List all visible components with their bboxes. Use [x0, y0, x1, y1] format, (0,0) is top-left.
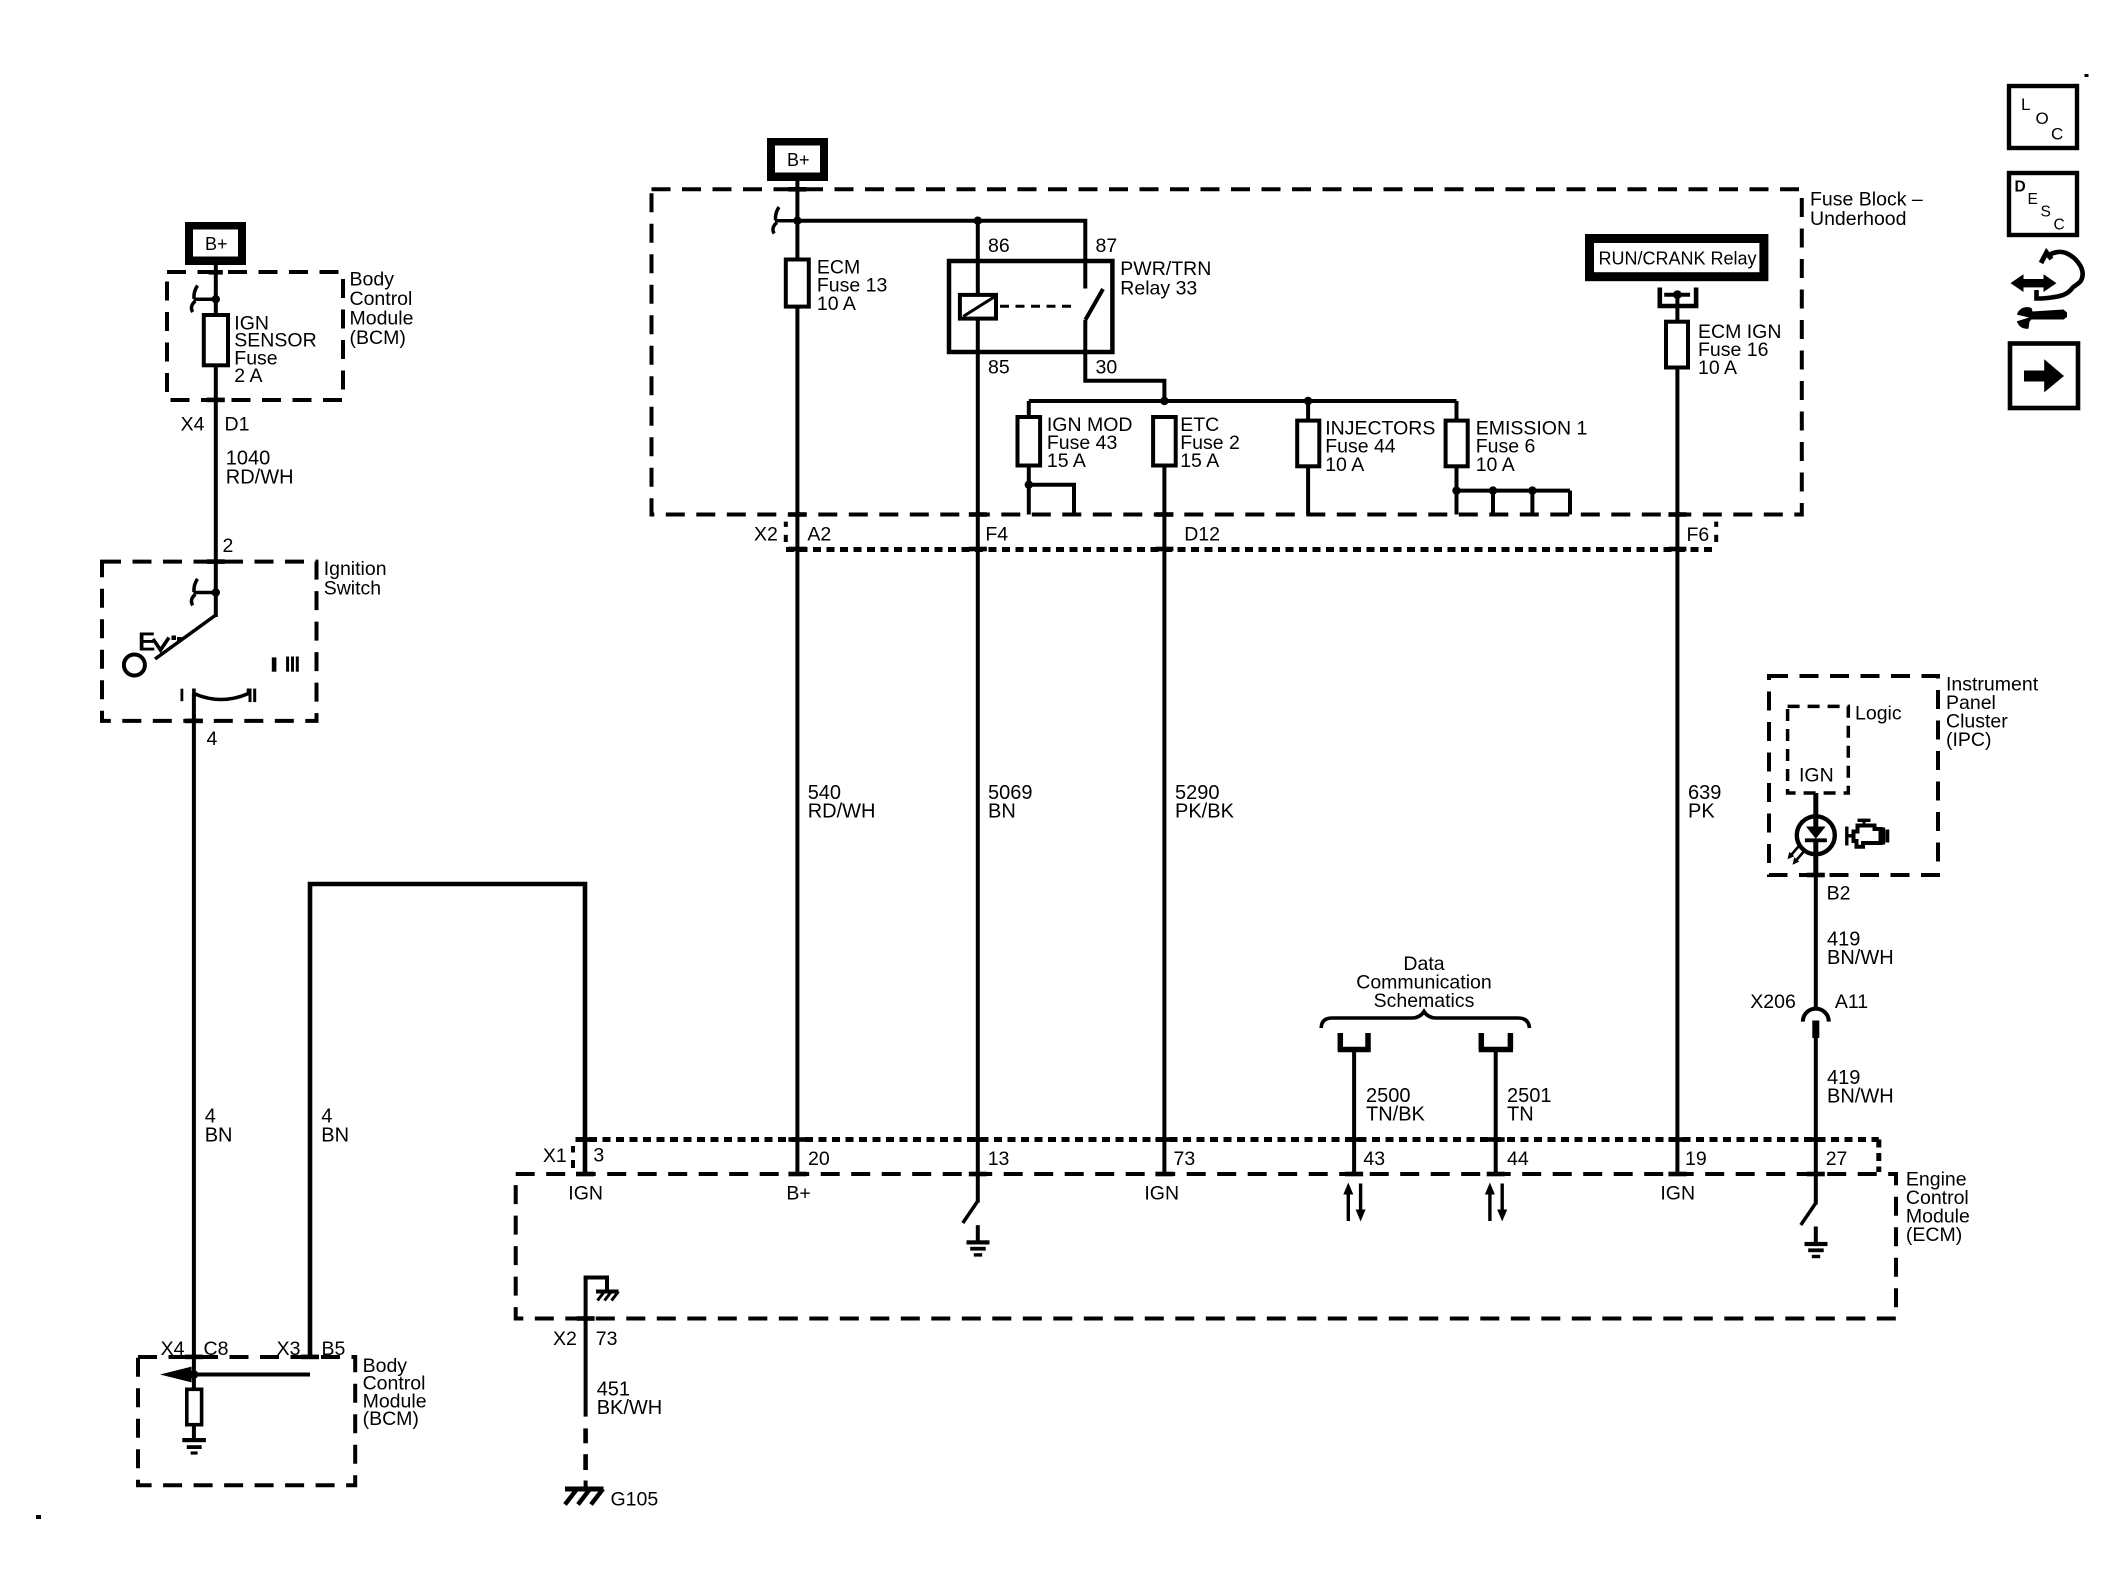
- svg-text:RUN/CRANK Relay: RUN/CRANK Relay: [1599, 249, 1757, 269]
- svg-text:10 A: 10 A: [1476, 454, 1515, 476]
- svg-text:IGN: IGN: [1660, 1183, 1695, 1205]
- relay pin labels 85 30: [988, 357, 1117, 379]
- svg-text:D12: D12: [1184, 524, 1220, 546]
- wire label 4 BN (right): [321, 1106, 349, 1147]
- wire label 540 RD/WH: [808, 782, 876, 823]
- junction node inside BCM: [190, 1370, 311, 1379]
- connector X2 labels at ECM: [553, 1316, 617, 1350]
- svg-text:IGN: IGN: [1799, 765, 1834, 787]
- wire label 5069 BN: [988, 782, 1033, 823]
- svg-text:86: 86: [988, 235, 1010, 257]
- Body Control Module (BCM) box, top: [167, 272, 343, 400]
- pin 4 label: [207, 728, 218, 750]
- svg-text:PK: PK: [1688, 801, 1715, 823]
- connector labels X3 B5 at BCM: [277, 1338, 346, 1360]
- resistor (BCM pull-down): [187, 1375, 202, 1439]
- wire label 639 PK: [1688, 782, 1721, 823]
- Fuse Block label: [1810, 189, 1923, 231]
- connector bracket under RUN/CRANK relay: [1658, 288, 1699, 307]
- wire logic IGN to indicator LED: [1813, 793, 1818, 817]
- IGN node label in logic box: [1799, 765, 1834, 787]
- svg-text:F4: F4: [985, 524, 1008, 546]
- svg-text:85: 85: [988, 357, 1010, 379]
- fuse ECM IGN label: [1698, 321, 1781, 379]
- svg-text:73: 73: [596, 1328, 618, 1350]
- svg-text:15 A: 15 A: [1180, 450, 1219, 472]
- svg-text:10 A: 10 A: [1325, 454, 1364, 476]
- svg-text:(IPC): (IPC): [1946, 729, 1992, 751]
- svg-text:3: 3: [593, 1145, 604, 1167]
- svg-text:A11: A11: [1835, 991, 1868, 1013]
- Ignition Switch label: [324, 558, 387, 600]
- svg-text:IGN: IGN: [1144, 1183, 1179, 1205]
- Logic box inside IPC: [1788, 706, 1849, 793]
- fuse ECM 13 label: [817, 256, 887, 315]
- icon DESC button: [2009, 173, 2077, 235]
- Body Control Module (BCM) box, bottom: [138, 1357, 355, 1485]
- relay coil: [960, 295, 996, 319]
- svg-text:2: 2: [223, 535, 234, 557]
- relay RUN/CRANK Relay box: [1585, 234, 1768, 281]
- connector X206 A11 in-line: [1803, 1009, 1829, 1177]
- svg-text:RD/WH: RD/WH: [226, 467, 294, 489]
- svg-text:Relay 33: Relay 33: [1120, 277, 1197, 299]
- ECM label: [1906, 1168, 1970, 1246]
- wire label 419 BN/WH (upper): [1827, 928, 1894, 969]
- icon forward arrow button: [2010, 344, 2078, 409]
- Ignition Switch box: [102, 562, 317, 721]
- fuse IGN MOD label: [1047, 414, 1133, 472]
- fuse ECM IGN Fuse 16 10A: [1666, 295, 1688, 1177]
- fuse IGN SENSOR 2A: [204, 315, 228, 365]
- svg-text:BK/WH: BK/WH: [597, 1397, 663, 1419]
- svg-text:X1: X1: [543, 1145, 567, 1167]
- svg-text:G105: G105: [611, 1489, 659, 1511]
- wire BCM B5 branch up and over to ECM pin 3: [301, 884, 594, 1359]
- svg-text:IGN: IGN: [568, 1183, 603, 1205]
- wrench part of icon: [2010, 307, 2067, 329]
- internal ground lead to ECM case at X2-73: [586, 1278, 607, 1319]
- fuse ECM Fuse 13 10A: [786, 260, 809, 307]
- connector X2 line under fuse block: [786, 547, 1714, 552]
- svg-text:PK/BK: PK/BK: [1175, 801, 1235, 823]
- svg-text:B2: B2: [1827, 883, 1851, 905]
- IPC label: [1946, 674, 2039, 752]
- wire label 1040 RD/WH: [226, 447, 294, 488]
- wire B+ to BCM IGN SENSOR fuse: [209, 265, 223, 315]
- relay PWR/TRN Relay 33 box: [949, 261, 1112, 352]
- BCM bottom label: [363, 1355, 427, 1430]
- svg-text:BN/WH: BN/WH: [1827, 947, 1894, 969]
- LED indicator (MIL): [1797, 816, 1835, 875]
- svg-text:D: D: [2015, 179, 2026, 196]
- svg-text:(BCM): (BCM): [363, 1408, 419, 1430]
- wire ECM fuse 13 down to pin A2/ECM 20 (circuit 540): [788, 307, 806, 1177]
- svg-text:L: L: [2021, 95, 2030, 114]
- wire label 419 BN/WH (lower): [1827, 1067, 1894, 1108]
- svg-text:27: 27: [1826, 1148, 1848, 1170]
- svg-text:BN: BN: [321, 1125, 349, 1147]
- ground inside ECM at pin 27: [1805, 1227, 1828, 1259]
- svg-text:Logic: Logic: [1855, 703, 1902, 725]
- fuse INJECTORS label: [1325, 417, 1435, 475]
- pin 2 label: [223, 535, 234, 557]
- connector X1 labels: [543, 1145, 604, 1169]
- svg-text:A2: A2: [807, 524, 831, 546]
- node B+ (battery feed, fuse block): [767, 138, 828, 181]
- svg-text:X4: X4: [181, 414, 205, 436]
- svg-text:43: 43: [1363, 1148, 1385, 1170]
- svg-text:B+: B+: [786, 1183, 810, 1205]
- svg-text:44: 44: [1507, 1148, 1529, 1170]
- connector stub for serial data wire 2500: [1338, 1033, 1371, 1050]
- relay coil wire 86-85: [969, 221, 987, 1177]
- fuse EMISSION 1 label: [1476, 417, 1588, 475]
- connector clip at fuse block feed: [773, 207, 802, 234]
- fuse ETC Fuse 2 15A: [1153, 417, 1176, 1176]
- icon LOC button: [2009, 86, 2077, 148]
- wire 2501 TN to ECM pin 44: [1487, 1052, 1505, 1176]
- svg-text:RD/WH: RD/WH: [808, 801, 876, 823]
- relay contact arm: [1085, 289, 1103, 320]
- LED emission arrows: [1788, 847, 1804, 865]
- svg-text:Switch: Switch: [324, 577, 381, 599]
- Logic label: [1855, 703, 1902, 725]
- fuse ETC label: [1180, 414, 1240, 472]
- svg-text:E: E: [2028, 191, 2038, 208]
- svg-text:2 A: 2 A: [234, 365, 262, 387]
- svg-text:F6: F6: [1687, 524, 1710, 546]
- stray mark top right: [2085, 74, 2089, 77]
- svg-text:X206: X206: [1750, 991, 1796, 1013]
- wire fuse to ignition switch (circuit 1040 RD/WH): [207, 365, 225, 617]
- svg-text:C: C: [2054, 217, 2065, 234]
- svg-text:TN/BK: TN/BK: [1366, 1103, 1426, 1125]
- ignition switch contacts I and II with arc: [181, 689, 257, 703]
- pin F4 label: [985, 524, 1008, 546]
- ground G105: [565, 1489, 604, 1505]
- ground inside ECM at pin 13: [967, 1225, 990, 1256]
- svg-text:(ECM): (ECM): [1906, 1224, 1962, 1246]
- connector X1 line over ECM: [576, 1140, 1879, 1173]
- svg-text:B+: B+: [787, 150, 810, 170]
- svg-text:10 A: 10 A: [1698, 357, 1737, 379]
- BCM label text: [350, 269, 414, 350]
- ground G105 label: [611, 1489, 659, 1511]
- wire bus B+ to relay pins 86 and 87: [797, 221, 1085, 289]
- wire 451 BK/WH to ground: [584, 1319, 588, 1490]
- pin F6 label: [1687, 522, 1719, 546]
- wire label 4 BN (left): [205, 1106, 233, 1147]
- ground inside BCM: [182, 1438, 206, 1455]
- fuse EMISSION 1 Fuse 6 10A: [1446, 401, 1468, 515]
- svg-text:15 A: 15 A: [1047, 450, 1086, 472]
- junction on bus at relay coil: [974, 217, 982, 225]
- svg-text:BN/WH: BN/WH: [1827, 1085, 1894, 1107]
- ECM internal node labels: [568, 1183, 1695, 1205]
- Engine Control Module (ECM) box: [516, 1174, 1896, 1319]
- connector X206 labels: [1750, 991, 1868, 1013]
- wire IGN MOD stub loop to block edge: [1029, 485, 1074, 515]
- wire 2500 TN/BK to ECM pin 43: [1345, 1052, 1363, 1176]
- fuse IGN MOD Fuse 43 15A: [1018, 401, 1041, 515]
- svg-text:X2: X2: [553, 1328, 577, 1350]
- pin B2 label: [1827, 883, 1851, 905]
- svg-text:BN: BN: [205, 1125, 233, 1147]
- wire label 2500 TN/BK: [1366, 1085, 1426, 1126]
- svg-text:S: S: [2041, 204, 2051, 221]
- svg-text:B+: B+: [205, 234, 228, 254]
- wire ignition switch pin 4 down: [185, 694, 203, 1375]
- Data Communication Schematics label: [1356, 953, 1491, 1012]
- fuse INJECTORS Fuse 44 10A: [1297, 401, 1319, 515]
- serial data arrows at pin 43: [1343, 1183, 1365, 1222]
- svg-text:87: 87: [1096, 235, 1118, 257]
- ECM driver switch at pin 27: [1801, 1174, 1816, 1225]
- svg-text:20: 20: [808, 1148, 830, 1170]
- ignition switch pivot contact: [124, 655, 145, 676]
- ignition switch arm: [155, 615, 216, 659]
- chassis ground symbol inside ECM: [596, 1292, 619, 1301]
- svg-text:13: 13: [988, 1148, 1010, 1170]
- svg-text:TN: TN: [1507, 1103, 1534, 1125]
- brace over data lines: [1321, 1012, 1529, 1029]
- fuse IGN SENSOR label: [234, 312, 316, 387]
- svg-text:30: 30: [1096, 357, 1118, 379]
- stray mark bottom left: [36, 1515, 41, 1519]
- relay pin labels 86 87: [988, 235, 1117, 257]
- ignition switch position marks E v: [138, 627, 182, 657]
- svg-text:O: O: [2036, 109, 2049, 128]
- svg-text:D1: D1: [225, 414, 250, 436]
- connector clip inside ignition switch: [191, 579, 220, 606]
- serial data arrows at pin 44: [1485, 1183, 1507, 1222]
- Instrument Panel Cluster (IPC) box: [1769, 676, 1938, 875]
- engine icon (check engine): [1847, 820, 1888, 847]
- Fuse Block - Underhood box: [652, 189, 1802, 514]
- wire label 5290 PK/BK: [1175, 782, 1235, 823]
- svg-text:Underhood: Underhood: [1810, 208, 1907, 230]
- svg-text:(BCM): (BCM): [350, 327, 406, 349]
- svg-text:19: 19: [1685, 1148, 1707, 1170]
- wire EMISSION 1 stub loops to block edge: [1452, 486, 1570, 514]
- wire fused ignition bus: [1029, 397, 1457, 405]
- arrow to other BCM circuits: [160, 1367, 192, 1383]
- ECM driver switch at pin 13: [963, 1174, 978, 1223]
- connector X2 labels: [754, 522, 831, 546]
- svg-text:10 A: 10 A: [817, 293, 856, 315]
- svg-text:C: C: [2051, 125, 2063, 144]
- pin D12 label: [1184, 524, 1220, 546]
- wire label 2501 TN: [1507, 1085, 1552, 1126]
- wire label 451 BK/WH: [597, 1379, 663, 1420]
- wire LED to IPC pin B2: [1807, 873, 1825, 1009]
- relay coil to contact dashed link: [1000, 305, 1076, 308]
- node B+ (battery feed, left): [185, 222, 246, 265]
- connector clip inside BCM: [191, 286, 220, 313]
- connector stub for serial data wire 2501: [1479, 1033, 1513, 1050]
- pin X4 D1 labels: [181, 414, 250, 436]
- wire relay pin 30 to fused bus: [1085, 320, 1164, 401]
- wire B+ into fuse block: [788, 181, 806, 260]
- icon double arrow with outline and wrench: [2011, 252, 2083, 299]
- relay label PWR/TRN Relay 33: [1120, 258, 1211, 299]
- ignition switch position marks III: [272, 657, 299, 672]
- svg-text:X2: X2: [754, 524, 778, 546]
- svg-text:4: 4: [207, 728, 218, 750]
- svg-text:BN: BN: [988, 801, 1016, 823]
- ECM pin number labels: [808, 1148, 1847, 1170]
- connector labels X4 C8 at BCM: [161, 1338, 229, 1360]
- svg-text:73: 73: [1174, 1148, 1196, 1170]
